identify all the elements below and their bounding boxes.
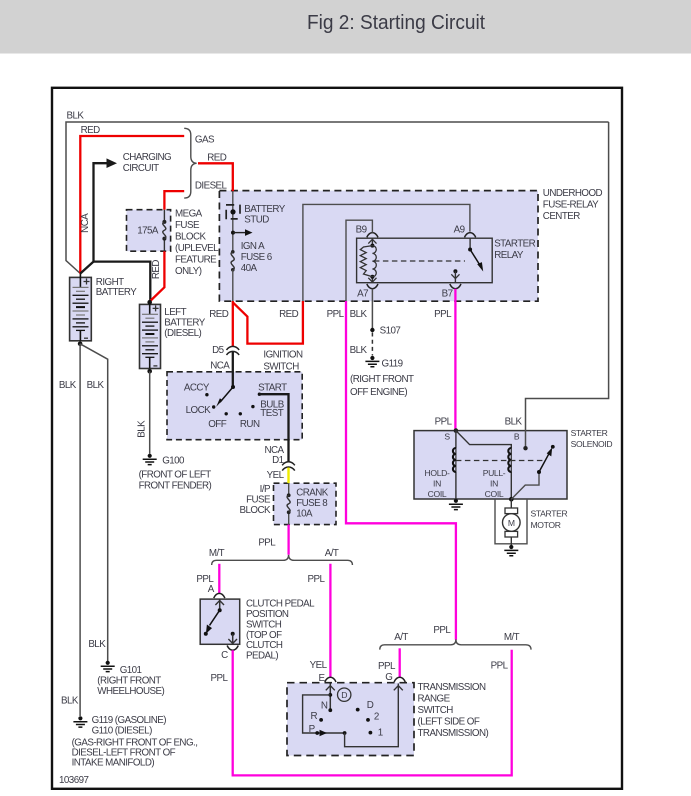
- svg-text:CENTER: CENTER: [543, 211, 580, 222]
- svg-text:BLK: BLK: [350, 345, 368, 356]
- wire RED battery feed: [80, 125, 184, 274]
- brace M/T A/T upper: [209, 548, 353, 565]
- svg-text:D5: D5: [212, 345, 225, 356]
- svg-text:Fig 2: Starting Circuit: Fig 2: Starting Circuit: [307, 11, 485, 34]
- svg-text:BLK: BLK: [61, 695, 79, 706]
- svg-text:BLK: BLK: [88, 639, 106, 650]
- svg-text:PULL-: PULL-: [483, 468, 506, 478]
- svg-text:DIESEL: DIESEL: [195, 181, 228, 192]
- svg-text:HOLD-: HOLD-: [425, 468, 450, 478]
- terminal arc B9: [367, 233, 378, 238]
- svg-text:PPL: PPL: [378, 661, 396, 672]
- terminal arc B7: [450, 284, 461, 289]
- wire BLK top loop: [66, 111, 609, 274]
- svg-text:M: M: [508, 518, 515, 528]
- svg-text:CIRCUIT: CIRCUIT: [123, 163, 159, 174]
- svg-text:PPL: PPL: [211, 673, 229, 684]
- wire BLK right battery to G101: [80, 344, 108, 661]
- svg-text:BLK: BLK: [87, 380, 105, 391]
- svg-text:IN: IN: [433, 479, 441, 489]
- svg-text:YEL: YEL: [310, 660, 328, 671]
- fuse CRANK fuse 8: [287, 483, 291, 524]
- svg-text:FUSE 6: FUSE 6: [241, 252, 273, 263]
- wire RED mega fuse to left battery: [150, 251, 165, 301]
- terminal arc E: [325, 677, 336, 682]
- svg-text:RED: RED: [81, 125, 101, 136]
- wire gray ignition feed inside box: [303, 204, 470, 301]
- svg-text:(RIGHT FRONT: (RIGHT FRONT: [350, 374, 414, 385]
- ground solenoid hold-in coil: [449, 499, 463, 510]
- svg-text:G119 (GASOLINE): G119 (GASOLINE): [92, 715, 167, 726]
- i/p fuse block box: [240, 483, 336, 524]
- svg-text:G119: G119: [382, 359, 403, 370]
- svg-text:CRANK: CRANK: [296, 488, 329, 499]
- solenoid S terminal and coils: [425, 428, 546, 499]
- ground G101: [101, 661, 115, 672]
- underhood fuse-relay center box: [219, 188, 602, 301]
- svg-text:GAS: GAS: [195, 135, 215, 146]
- starter relay coil and contacts: [356, 224, 484, 299]
- connector D1: [264, 445, 294, 481]
- svg-text:(DIESEL): (DIESEL): [164, 328, 201, 339]
- svg-text:R: R: [310, 711, 317, 722]
- svg-text:FRONT FENDER): FRONT FENDER): [139, 480, 212, 491]
- svg-text:COIL: COIL: [485, 489, 504, 499]
- wire D5 to ignition pivot: [232, 352, 234, 387]
- connector D5: [210, 345, 239, 372]
- svg-text:PEDAL): PEDAL): [246, 651, 278, 662]
- svg-text:RANGE: RANGE: [418, 694, 451, 705]
- svg-text:C: C: [221, 650, 228, 661]
- svg-text:PPL: PPL: [327, 309, 345, 320]
- svg-text:BLK: BLK: [505, 417, 523, 428]
- starter relay box: [357, 238, 536, 283]
- svg-text:IGNITION: IGNITION: [263, 349, 303, 360]
- svg-text:PPL: PPL: [258, 538, 276, 549]
- clutch pedal position switch box: [200, 599, 315, 662]
- svg-text:40A: 40A: [241, 263, 258, 274]
- svg-text:(RIGHT FRONT: (RIGHT FRONT: [97, 675, 161, 686]
- wire BLK right drop to solenoid B: [505, 122, 609, 450]
- svg-text:TRANSMISSION): TRANSMISSION): [418, 728, 489, 739]
- svg-text:ONLY): ONLY): [175, 266, 202, 277]
- svg-text:STUD: STUD: [244, 214, 269, 225]
- svg-text:MEGA: MEGA: [175, 208, 203, 219]
- svg-text:MOTOR: MOTOR: [531, 520, 561, 530]
- ignition switch contacts: [184, 382, 287, 430]
- starter motor: [495, 499, 568, 546]
- mega fuse block box: [127, 208, 220, 276]
- terminal arc A7: [367, 284, 378, 289]
- wire RED diesel to mega fuse: [164, 191, 184, 210]
- wire BLK A7 to S107: [350, 289, 401, 337]
- solenoid switch contact: [509, 445, 555, 502]
- svg-text:STARTER: STARTER: [571, 428, 608, 438]
- wire PPL A/T to trans switch G: [378, 648, 400, 683]
- svg-text:B9: B9: [356, 224, 367, 235]
- svg-text:RED: RED: [207, 152, 227, 163]
- svg-text:S: S: [444, 432, 450, 442]
- svg-text:IGN A: IGN A: [241, 241, 265, 252]
- svg-text:START: START: [258, 382, 287, 393]
- svg-text:PPL: PPL: [433, 625, 451, 636]
- svg-text:NCA: NCA: [210, 361, 230, 372]
- svg-text:RED: RED: [151, 260, 162, 280]
- svg-text:D1: D1: [272, 455, 284, 466]
- svg-text:103697: 103697: [59, 775, 88, 786]
- svg-text:FEATURE: FEATURE: [175, 254, 217, 265]
- svg-text:A7: A7: [357, 289, 368, 300]
- svg-text:S107: S107: [380, 326, 401, 337]
- svg-text:RELAY: RELAY: [494, 250, 524, 261]
- svg-text:LOCK: LOCK: [186, 405, 211, 416]
- right battery: [70, 274, 138, 347]
- wire START to D1: [259, 394, 288, 461]
- svg-text:G101: G101: [120, 665, 142, 676]
- wire charging circuit branch: [80, 152, 171, 273]
- svg-text:M/T: M/T: [209, 548, 225, 559]
- svg-text:CLUTCH PEDAL: CLUTCH PEDAL: [246, 599, 315, 610]
- svg-text:BLK: BLK: [136, 420, 147, 438]
- svg-text:BATTERY: BATTERY: [96, 287, 137, 298]
- wire gray B9 control inside box: [346, 220, 372, 301]
- svg-text:TRANSMISSION: TRANSMISSION: [418, 682, 486, 693]
- svg-text:G110 (DIESEL): G110 (DIESEL): [92, 726, 152, 737]
- wire BLK right battery to G119/G110: [59, 344, 80, 716]
- svg-text:(UPLEVEL: (UPLEVEL: [175, 243, 219, 254]
- terminal arc A: [214, 593, 225, 598]
- svg-text:STARTER: STARTER: [494, 239, 535, 250]
- wire PPL crank fuse to brace: [258, 525, 288, 555]
- svg-text:A9: A9: [454, 224, 465, 235]
- svg-text:E: E: [319, 673, 326, 684]
- svg-text:G: G: [385, 672, 392, 683]
- svg-text:PPL: PPL: [308, 574, 326, 585]
- svg-text:WHEELHOUSE): WHEELHOUSE): [97, 686, 164, 697]
- wire PPL M/T branch to clutch switch A: [196, 564, 219, 595]
- svg-text:BLK: BLK: [67, 111, 85, 122]
- ignition switch box: [167, 349, 303, 439]
- transmission range switch box: [287, 682, 488, 756]
- wire PPL B7 to solenoid S: [434, 289, 455, 431]
- svg-text:G100: G100: [162, 455, 185, 466]
- svg-text:A/T: A/T: [325, 548, 339, 559]
- svg-text:BLK: BLK: [59, 380, 77, 391]
- svg-text:OFF: OFF: [208, 419, 227, 430]
- svg-text:FUSE: FUSE: [175, 220, 200, 231]
- svg-text:2: 2: [374, 711, 379, 722]
- svg-text:ACCY: ACCY: [184, 382, 210, 393]
- terminal arc A9: [465, 233, 476, 238]
- svg-text:INTAKE MANIFOLD): INTAKE MANIFOLD): [72, 758, 155, 769]
- svg-text:10A: 10A: [296, 509, 313, 520]
- brace A/T M/T lower: [380, 625, 531, 650]
- left battery (diesel): [140, 300, 206, 374]
- svg-text:POSITION: POSITION: [246, 609, 289, 620]
- svg-text:SOLENOID: SOLENOID: [571, 439, 613, 449]
- svg-text:A: A: [208, 584, 215, 595]
- svg-text:PPL: PPL: [491, 660, 509, 671]
- svg-text:1: 1: [378, 728, 383, 739]
- svg-text:RIGHT: RIGHT: [96, 277, 124, 288]
- svg-text:175A: 175A: [137, 226, 159, 237]
- svg-text:YEL: YEL: [267, 470, 285, 481]
- starter solenoid box: [414, 428, 612, 499]
- wire PPL clutch C loop to M/T lower brace: [211, 650, 512, 776]
- svg-text:IN: IN: [490, 479, 498, 489]
- svg-text:RED: RED: [209, 309, 229, 320]
- svg-text:TEST: TEST: [260, 408, 283, 419]
- svg-text:LEFT: LEFT: [164, 307, 186, 318]
- wire inter-battery link: [94, 262, 151, 302]
- svg-text:COIL: COIL: [428, 489, 447, 499]
- svg-text:D: D: [341, 690, 347, 700]
- svg-text:B7: B7: [442, 289, 453, 300]
- svg-text:FUSE-RELAY: FUSE-RELAY: [543, 200, 599, 211]
- svg-text:SWITCH: SWITCH: [418, 705, 454, 716]
- svg-text:BATTERY: BATTERY: [244, 204, 285, 215]
- svg-text:NCA: NCA: [80, 213, 91, 233]
- svg-text:PPL: PPL: [434, 309, 452, 320]
- wire YEL to I/P fuse block: [287, 468, 289, 484]
- svg-text:BATTERY: BATTERY: [164, 318, 205, 329]
- wire PPL A/T branch to trans switch E: [308, 564, 331, 684]
- terminal arc G: [394, 677, 405, 682]
- ground G119 right front off engine: [365, 356, 379, 367]
- svg-text:(FRONT OF LEFT: (FRONT OF LEFT: [139, 470, 212, 481]
- title bar: [0, 0, 691, 54]
- svg-text:M/T: M/T: [504, 632, 520, 643]
- terminal arc C: [227, 646, 238, 651]
- svg-text:UNDERHOOD: UNDERHOOD: [543, 188, 603, 199]
- mega fuse 175A element: [151, 210, 167, 279]
- ground starter motor: [504, 545, 518, 556]
- svg-text:P: P: [309, 724, 316, 735]
- svg-text:STARTER: STARTER: [531, 508, 568, 518]
- ground G100: [143, 454, 157, 465]
- wire RED gas-diesel to battery stud: [198, 163, 233, 191]
- wire BLK left battery to G100: [136, 371, 149, 454]
- svg-text:SWITCH: SWITCH: [263, 361, 299, 372]
- svg-text:(TOP OF: (TOP OF: [246, 630, 282, 641]
- svg-text:BLOCK: BLOCK: [175, 231, 206, 242]
- svg-text:OFF ENGINE): OFF ENGINE): [350, 387, 407, 398]
- svg-text:RED: RED: [279, 309, 299, 320]
- fuse IGN A fuse 6: [231, 241, 273, 301]
- svg-text:RUN: RUN: [240, 419, 260, 430]
- svg-text:PPL: PPL: [435, 417, 453, 428]
- trans range switch contacts: [303, 684, 403, 747]
- svg-text:BLOCK: BLOCK: [240, 505, 271, 516]
- battery stud: [226, 191, 286, 252]
- svg-text:CHARGING: CHARGING: [123, 152, 171, 163]
- wire RED ignition loop: [209, 301, 303, 346]
- svg-text:CLUTCH: CLUTCH: [246, 640, 283, 651]
- svg-text:A/T: A/T: [394, 632, 408, 643]
- svg-text:FUSE 8: FUSE 8: [296, 498, 328, 509]
- svg-text:N: N: [321, 700, 328, 711]
- svg-text:BLK: BLK: [350, 309, 368, 320]
- clutch switch contacts: [204, 599, 237, 644]
- brace GAS/DIESEL: [184, 128, 227, 198]
- svg-text:B: B: [514, 432, 520, 442]
- svg-text:SWITCH: SWITCH: [246, 619, 282, 630]
- wire BLK dashed S107 to G119: [350, 333, 373, 356]
- ground G119/G110 gasoline/diesel: [73, 716, 87, 727]
- svg-text:(LEFT SIDE OF: (LEFT SIDE OF: [418, 717, 480, 728]
- svg-text:D: D: [367, 700, 374, 711]
- wire PPL B9 control to brace: [327, 301, 456, 640]
